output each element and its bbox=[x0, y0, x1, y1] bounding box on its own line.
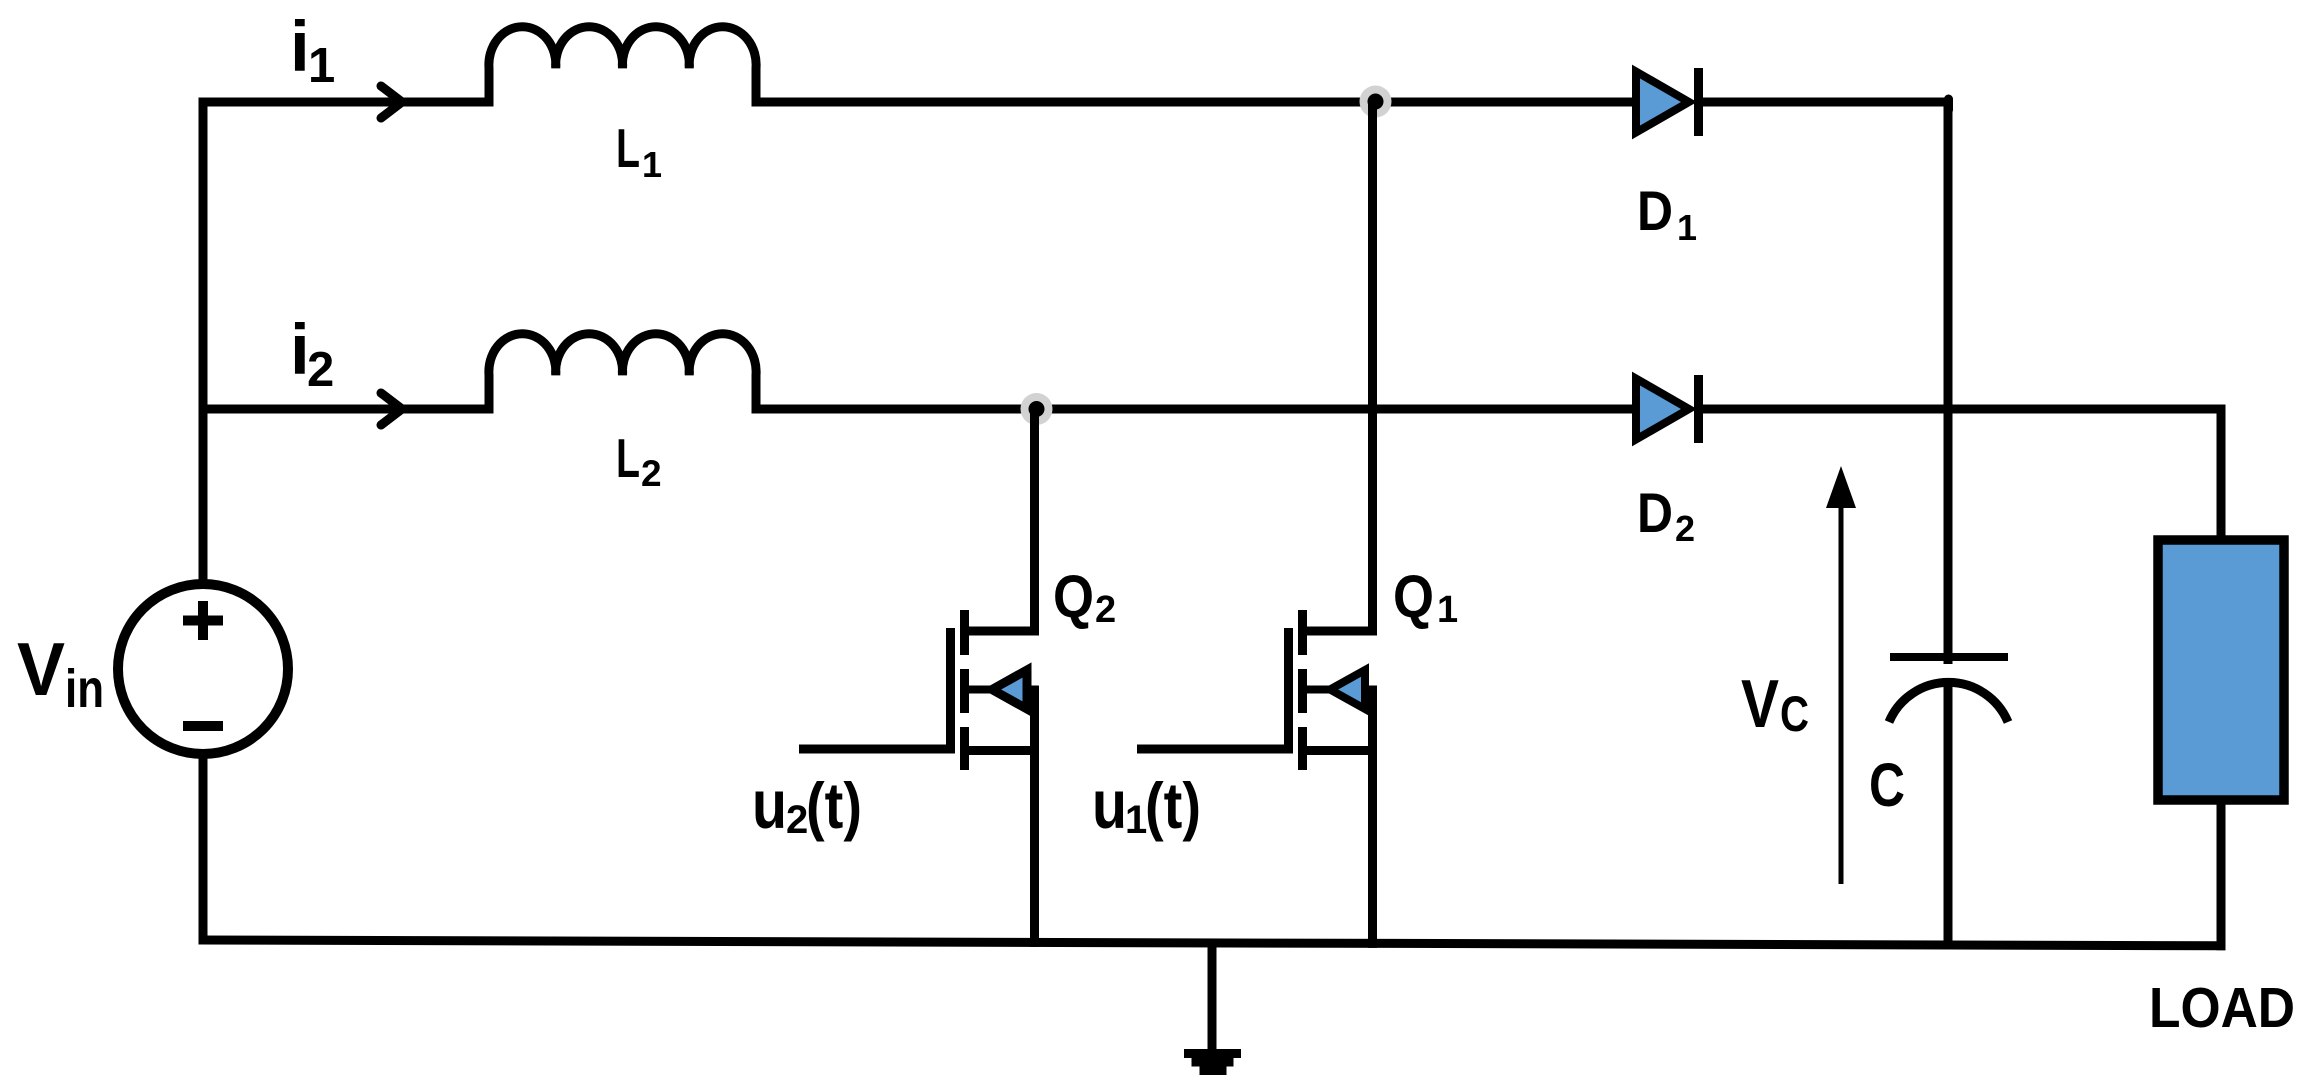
svg-text:V: V bbox=[17, 627, 65, 711]
svg-text:2: 2 bbox=[1675, 508, 1695, 549]
svg-text:V: V bbox=[1741, 666, 1779, 742]
svg-text:(t): (t) bbox=[806, 769, 862, 842]
svg-text:Q: Q bbox=[1393, 563, 1434, 630]
svg-text:L: L bbox=[616, 117, 640, 179]
svg-text:1: 1 bbox=[1125, 798, 1147, 842]
svg-text:Q: Q bbox=[1053, 563, 1094, 630]
svg-text:2: 2 bbox=[307, 343, 334, 397]
svg-text:2: 2 bbox=[641, 453, 662, 494]
svg-text:(t): (t) bbox=[1145, 769, 1201, 842]
svg-text:C: C bbox=[1780, 686, 1809, 742]
svg-text:2: 2 bbox=[1095, 589, 1116, 631]
svg-text:1: 1 bbox=[308, 39, 335, 93]
svg-text:i: i bbox=[290, 8, 310, 87]
svg-text:LOAD: LOAD bbox=[2149, 976, 2295, 1040]
svg-text:1: 1 bbox=[642, 144, 662, 185]
svg-text:in: in bbox=[65, 659, 104, 719]
svg-text:1: 1 bbox=[1437, 589, 1458, 631]
svg-text:u: u bbox=[752, 766, 787, 843]
svg-text:L: L bbox=[616, 427, 640, 489]
svg-text:D: D bbox=[1637, 481, 1673, 544]
svg-text:D: D bbox=[1637, 179, 1673, 242]
svg-text:1: 1 bbox=[1677, 207, 1697, 248]
svg-text:C: C bbox=[1869, 751, 1905, 819]
svg-text:2: 2 bbox=[786, 798, 808, 842]
svg-text:u: u bbox=[1092, 766, 1127, 843]
